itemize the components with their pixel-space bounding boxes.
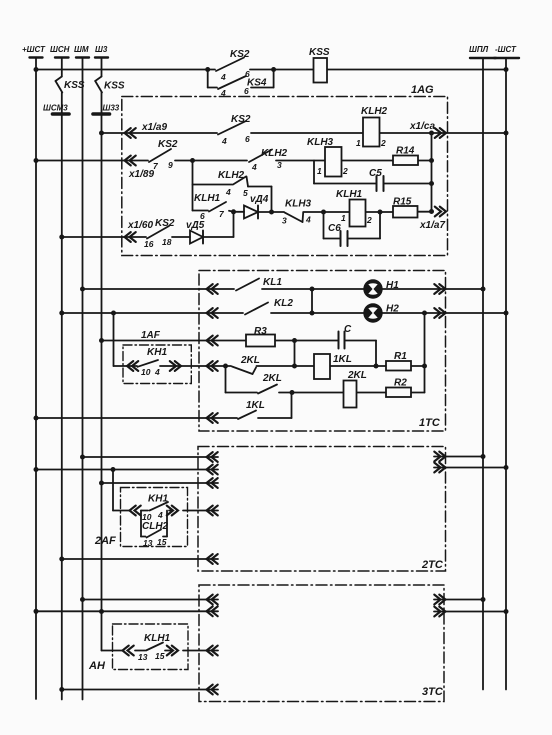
svg-text:x1/60: x1/60 [127, 220, 153, 231]
svg-text:1: 1 [356, 138, 361, 148]
svg-text:2: 2 [366, 215, 372, 225]
svg-text:1: 1 [341, 213, 346, 223]
svg-text:C5: C5 [369, 168, 382, 179]
svg-text:H1: H1 [386, 280, 399, 291]
svg-text:ШМ: ШМ [74, 45, 89, 54]
svg-text:1TC: 1TC [419, 417, 441, 429]
svg-text:4: 4 [220, 88, 226, 98]
svg-text:KLH1: KLH1 [194, 193, 221, 204]
svg-text:KLH1: KLH1 [336, 189, 363, 200]
svg-text:KH1: KH1 [148, 494, 168, 505]
svg-text:vД4: vД4 [250, 194, 269, 205]
svg-text:2KL: 2KL [347, 370, 367, 381]
svg-text:+ШСТ: +ШСТ [22, 45, 46, 54]
svg-text:6: 6 [244, 86, 249, 96]
svg-text:R3: R3 [254, 326, 267, 337]
svg-text:-ШСТ: -ШСТ [495, 45, 517, 54]
svg-text:KLH2: KLH2 [361, 106, 388, 117]
svg-text:4: 4 [221, 136, 227, 146]
svg-text:KSS: KSS [104, 81, 125, 92]
svg-text:10: 10 [141, 367, 151, 377]
svg-text:CLH2: CLH2 [142, 521, 169, 532]
svg-text:KLH2: KLH2 [261, 148, 288, 159]
svg-text:R2: R2 [394, 378, 407, 389]
svg-text:4: 4 [154, 367, 160, 377]
svg-text:1KL: 1KL [333, 354, 352, 365]
svg-text:R15: R15 [393, 197, 412, 208]
svg-text:3: 3 [277, 160, 282, 170]
svg-text:C: C [344, 324, 352, 335]
svg-text:1AF: 1AF [141, 330, 161, 341]
svg-text:2KL: 2KL [262, 373, 282, 384]
svg-text:Ш3: Ш3 [95, 45, 108, 54]
svg-text:AH: AH [88, 660, 106, 672]
svg-text:4: 4 [225, 187, 231, 197]
svg-text:4: 4 [157, 510, 163, 520]
svg-text:1AG: 1AG [411, 84, 434, 96]
svg-text:4: 4 [251, 162, 257, 172]
svg-text:x1/a9: x1/a9 [141, 122, 167, 133]
svg-text:ШСМ3: ШСМ3 [43, 104, 68, 113]
svg-text:KL2: KL2 [274, 298, 293, 309]
svg-text:2TC: 2TC [421, 559, 444, 571]
svg-text:16: 16 [144, 239, 154, 249]
svg-text:Ш33: Ш33 [103, 104, 120, 113]
svg-text:KLH1: KLH1 [144, 633, 171, 644]
svg-text:KS2: KS2 [158, 139, 178, 150]
svg-text:vД5: vД5 [186, 220, 205, 231]
svg-text:R14: R14 [396, 146, 415, 157]
svg-text:KS4: KS4 [247, 78, 267, 89]
svg-text:KSS: KSS [64, 80, 85, 91]
svg-text:x1/89: x1/89 [128, 169, 154, 180]
svg-text:H2: H2 [386, 304, 399, 315]
svg-text:13: 13 [143, 538, 153, 548]
svg-text:2: 2 [380, 138, 386, 148]
svg-text:ШПЛ: ШПЛ [469, 45, 489, 54]
svg-text:C6: C6 [328, 223, 341, 234]
svg-text:KH1: KH1 [147, 347, 167, 358]
svg-text:KL1: KL1 [263, 277, 282, 288]
svg-text:KS2: KS2 [155, 218, 175, 229]
svg-text:x1/a7: x1/a7 [419, 220, 445, 231]
svg-text:5: 5 [243, 188, 248, 198]
svg-text:9: 9 [168, 160, 173, 170]
svg-text:KLH2: KLH2 [218, 170, 245, 181]
svg-text:18: 18 [162, 237, 172, 247]
svg-text:KLH3: KLH3 [307, 137, 334, 148]
svg-text:1KL: 1KL [246, 400, 265, 411]
svg-text:ШСН: ШСН [50, 45, 70, 54]
svg-text:13: 13 [138, 652, 148, 662]
svg-text:2AF: 2AF [94, 535, 116, 547]
svg-text:6: 6 [245, 134, 250, 144]
svg-text:KS2: KS2 [231, 114, 251, 125]
svg-text:KSS: KSS [309, 47, 330, 58]
svg-text:4: 4 [305, 215, 311, 225]
svg-text:15: 15 [155, 651, 165, 661]
svg-text:4: 4 [220, 72, 226, 82]
svg-text:15: 15 [157, 537, 167, 547]
svg-text:R1: R1 [394, 351, 407, 362]
svg-text:2KL: 2KL [240, 355, 260, 366]
svg-text:1: 1 [317, 166, 322, 176]
svg-text:KS2: KS2 [230, 49, 250, 60]
svg-text:KLH3: KLH3 [285, 199, 312, 210]
svg-text:2: 2 [342, 166, 348, 176]
svg-text:3TC: 3TC [422, 686, 444, 698]
svg-text:3: 3 [282, 216, 287, 226]
svg-text:x1/ca: x1/ca [409, 121, 435, 132]
